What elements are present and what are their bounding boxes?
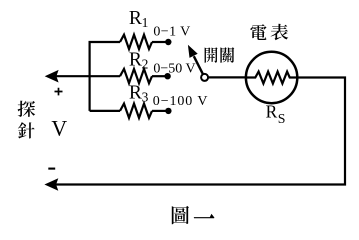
svg-text:3: 3 xyxy=(142,90,149,105)
svg-text:R: R xyxy=(129,49,142,70)
svg-text:V: V xyxy=(51,117,67,141)
svg-text:R: R xyxy=(266,102,278,122)
svg-text:0−100 V: 0−100 V xyxy=(153,94,209,109)
svg-text:R: R xyxy=(129,8,142,29)
svg-text:0−50 V: 0−50 V xyxy=(153,62,195,77)
svg-text:R: R xyxy=(129,83,142,104)
svg-text:0−1 V: 0−1 V xyxy=(153,25,190,40)
svg-text:S: S xyxy=(278,111,286,126)
svg-text:1: 1 xyxy=(142,15,149,30)
svg-text:2: 2 xyxy=(142,56,149,71)
